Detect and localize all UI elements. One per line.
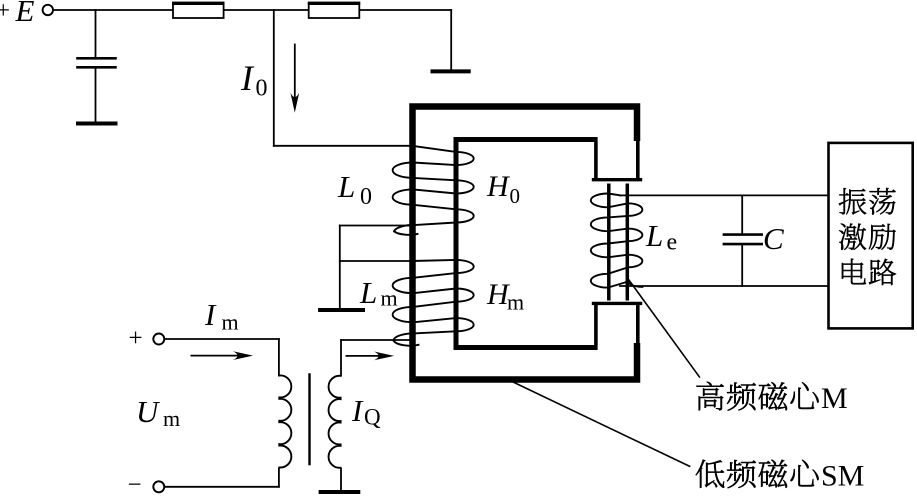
svg-text:L: L — [359, 275, 377, 310]
svg-text:U: U — [136, 394, 161, 429]
svg-text:H: H — [486, 170, 511, 203]
svg-text:I: I — [240, 58, 255, 98]
svg-text:e: e — [667, 230, 678, 256]
svg-text:I: I — [351, 393, 364, 428]
svg-text:SM: SM — [821, 460, 864, 493]
svg-text:I: I — [204, 297, 217, 332]
svg-text:0: 0 — [510, 184, 521, 208]
svg-text:m: m — [222, 310, 239, 335]
svg-text:E: E — [15, 0, 35, 28]
svg-text:M: M — [821, 382, 848, 415]
svg-text:Q: Q — [364, 405, 381, 430]
svg-text:+: + — [129, 325, 143, 352]
svg-text:+: + — [0, 0, 10, 24]
svg-text:−: − — [128, 472, 142, 498]
svg-text:0: 0 — [360, 184, 372, 210]
svg-text:C: C — [763, 221, 784, 256]
svg-text:0: 0 — [256, 76, 268, 102]
svg-text:L: L — [337, 169, 355, 204]
svg-text:L: L — [645, 218, 663, 253]
svg-text:m: m — [381, 286, 398, 311]
svg-text:m: m — [507, 290, 524, 315]
svg-text:m: m — [163, 406, 180, 431]
